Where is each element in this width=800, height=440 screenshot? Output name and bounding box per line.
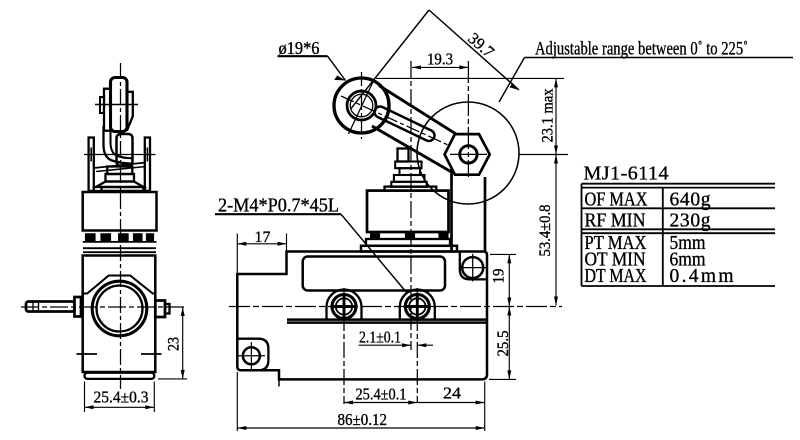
bellows fold 3 bbox=[394, 175, 425, 182]
svg-text:23: 23 bbox=[166, 337, 183, 351]
right nut tip bbox=[165, 304, 170, 314]
ear screw top-right cross bbox=[459, 267, 487, 269]
ear bottom-left bbox=[237, 339, 268, 371]
right nut bbox=[155, 301, 165, 318]
lever slot bbox=[375, 107, 435, 141]
conduit inner circle bbox=[97, 286, 143, 332]
upper body block bbox=[83, 192, 157, 231]
roller axle line bbox=[95, 104, 138, 106]
leaf spring lines bbox=[94, 163, 146, 169]
side tick right bbox=[141, 353, 162, 355]
teeth bbox=[86, 234, 96, 242]
bottom plate bbox=[85, 373, 155, 379]
svg-text:OF MAX: OF MAX bbox=[585, 190, 648, 211]
plunger stack r2 bbox=[106, 174, 135, 182]
roller hub outer bbox=[347, 91, 376, 120]
lever bracket left plate bbox=[104, 89, 111, 131]
extension line pivot right (y154.5) bbox=[519, 154, 568, 156]
cover rounded rect bbox=[303, 257, 445, 291]
leader diagonal bbox=[499, 58, 525, 103]
svg-text:DT MAX: DT MAX bbox=[585, 266, 647, 287]
teeth band bottom line bbox=[83, 241, 157, 243]
dim 2.1 line left part bbox=[359, 344, 411, 346]
pivot circle bbox=[460, 146, 477, 163]
svg-text:ø19*6: ø19*6 bbox=[279, 38, 320, 58]
conduit outer circle bbox=[92, 281, 147, 336]
roller centerline vertical bbox=[361, 72, 363, 139]
svg-text:RF MIN: RF MIN bbox=[585, 211, 646, 232]
svg-text:17: 17 bbox=[255, 229, 271, 246]
bent lever (side) bbox=[104, 126, 132, 164]
dim 24 line bbox=[417, 402, 484, 404]
2-M4 label underline bbox=[215, 213, 341, 215]
rod thread ticks bbox=[32, 302, 34, 311]
bellows fold 1 bbox=[395, 162, 421, 169]
collar band lines bbox=[83, 247, 156, 249]
dim 25.4±0.3 line bbox=[85, 406, 155, 408]
bellows base plate bbox=[391, 182, 426, 187]
table divider bbox=[662, 188, 664, 286]
base step double line bbox=[287, 318, 487, 321]
roller (side) bbox=[111, 78, 128, 132]
ear screw bottom-left cross bbox=[238, 355, 265, 357]
head axle line bbox=[84, 154, 156, 156]
head axle tick left bbox=[90, 148, 92, 162]
plunger base bbox=[102, 187, 144, 191]
roller perpendicular centerline bbox=[349, 79, 375, 135]
lever hub bbox=[117, 134, 133, 166]
roller outer bbox=[334, 78, 389, 133]
dim 86±0.12 line bbox=[237, 427, 484, 429]
svg-text:53.4±0.8: 53.4±0.8 bbox=[537, 205, 554, 257]
plunger stem bbox=[398, 149, 409, 162]
range extension line left (45deg) bbox=[351, 10, 429, 109]
lever bracket right plate bbox=[127, 92, 133, 131]
terminal boss left bbox=[327, 290, 362, 320]
arm left edge bbox=[450, 169, 453, 252]
dim 23.1 line bbox=[555, 78, 557, 154]
head cylinder bbox=[367, 191, 449, 232]
dim 17 line bbox=[237, 243, 286, 245]
ear top-right bbox=[460, 252, 487, 280]
svg-text:2.1±0.1: 2.1±0.1 bbox=[359, 328, 401, 347]
dim 23 extension bbox=[158, 378, 187, 380]
dim 19 line bbox=[508, 254, 510, 306]
table row line 1 bbox=[582, 207, 776, 209]
leader: adjustable range underline bbox=[525, 57, 794, 59]
dia19 leader bbox=[328, 56, 346, 80]
svg-text:86±0.12: 86±0.12 bbox=[338, 410, 388, 429]
plunger centerline bbox=[410, 61, 412, 350]
lever lower edge bbox=[372, 126, 452, 172]
head bottom line bbox=[93, 190, 150, 192]
svg-text:2-M4*P0.7*45L: 2-M4*P0.7*45L bbox=[218, 195, 339, 217]
extension left edge bbox=[236, 372, 238, 431]
dim 23 line bbox=[182, 307, 184, 379]
body outline bbox=[237, 252, 487, 380]
extension line top (y78.5) bbox=[376, 77, 564, 79]
table row line 2 bbox=[582, 228, 776, 230]
dim 25.4±0.1 line bbox=[344, 402, 417, 404]
lever upper edge bbox=[379, 86, 456, 135]
arm right edge bbox=[484, 177, 487, 252]
extension line 25.5 bottom bbox=[489, 378, 516, 380]
collar band 2 bbox=[366, 239, 450, 246]
terminal screw right bbox=[405, 295, 429, 319]
svg-text:230g: 230g bbox=[670, 211, 711, 232]
pivot centerline vertical bbox=[467, 61, 469, 177]
dim 25.4±0.3 extensions bbox=[84, 382, 86, 413]
table title underline bbox=[582, 183, 776, 185]
horizontal centerline bbox=[21, 306, 187, 308]
screw head bbox=[75, 297, 82, 317]
left screw centerline vertical bbox=[343, 288, 345, 404]
range extension line right 39.7 bbox=[429, 10, 519, 90]
dim 19.3 line bbox=[412, 66, 468, 68]
dim 25.5 line bbox=[508, 307, 510, 380]
base flange bbox=[361, 246, 457, 252]
dim 2.1 line right part bbox=[417, 344, 433, 346]
table left edge bbox=[581, 184, 583, 286]
terminal screw left bbox=[332, 295, 356, 319]
table bottom line bbox=[582, 285, 776, 287]
svg-text:25.5: 25.5 bbox=[495, 330, 512, 356]
ear screw bottom-left circle bbox=[243, 347, 260, 364]
svg-text:24: 24 bbox=[443, 384, 462, 403]
svg-text:25.4±0.3: 25.4±0.3 bbox=[94, 388, 149, 407]
collar slots bbox=[371, 234, 380, 239]
svg-text:640g: 640g bbox=[670, 190, 711, 211]
roller hub inner bbox=[350, 94, 373, 117]
plunger stack r1 bbox=[107, 167, 132, 175]
svg-text:19.3: 19.3 bbox=[427, 50, 453, 69]
lever bracket left tab bbox=[100, 97, 104, 113]
plunger flare bbox=[96, 182, 144, 188]
head left plate bbox=[89, 138, 94, 191]
bellows fold 2 bbox=[400, 168, 421, 175]
side tick left bbox=[77, 353, 98, 355]
screw rod bbox=[26, 302, 75, 312]
dim 17 extensions bbox=[236, 234, 238, 274]
extension line 19-top bbox=[490, 253, 516, 255]
lever axis centerline bbox=[341, 96, 448, 145]
svg-text:Adjustable range between 0˚ to: Adjustable range between 0˚ to 225˚ bbox=[535, 40, 748, 60]
svg-text:19: 19 bbox=[491, 268, 508, 283]
svg-text:0.4mm: 0.4mm bbox=[670, 266, 734, 287]
collar band 1 bbox=[367, 238, 449, 240]
wire: vertical centerline bbox=[120, 63, 122, 389]
2-M4 leader bbox=[341, 214, 407, 293]
lower body bbox=[83, 256, 156, 373]
ear screw top-right circle bbox=[462, 257, 483, 278]
terminal centerline horizontal bbox=[229, 306, 562, 308]
head axle tick right bbox=[146, 148, 148, 162]
step tick bbox=[278, 379, 280, 386]
dia19 label underline bbox=[278, 55, 328, 57]
extension right edge bbox=[484, 382, 486, 432]
pivot cross horizontal bbox=[450, 153, 487, 155]
adjustable range big circle bbox=[417, 102, 519, 204]
table top line bbox=[582, 187, 776, 189]
svg-text:39.7: 39.7 bbox=[464, 29, 498, 62]
head right plate bbox=[145, 138, 150, 191]
svg-text:25.4±0.1: 25.4±0.1 bbox=[356, 385, 407, 404]
terminal boss right bbox=[400, 290, 435, 320]
svg-text:23.1 max: 23.1 max bbox=[540, 89, 557, 143]
pivot hex nut bbox=[445, 134, 490, 175]
right screw centerline vertical bbox=[416, 288, 418, 403]
head cap plate bbox=[385, 187, 437, 191]
table row line 3 bbox=[582, 232, 776, 234]
roof line bbox=[83, 276, 156, 294]
svg-text:MJ1-6114: MJ1-6114 bbox=[584, 163, 669, 185]
dim 53.4 line bbox=[555, 155, 557, 306]
